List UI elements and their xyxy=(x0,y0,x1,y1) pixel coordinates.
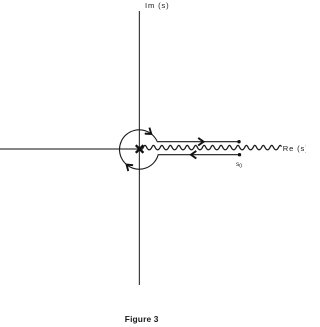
svg-text:Re (s): Re (s) xyxy=(283,144,306,153)
Re axis (left horizontal segment) xyxy=(0,148,139,150)
arrow on circle bottom-left (direction of contour) xyxy=(127,165,134,171)
Im axis (vertical) xyxy=(138,11,140,285)
arrow on bottom slot line (leftward) xyxy=(191,151,196,159)
branch point X at origin xyxy=(136,145,144,153)
endpoint dot top xyxy=(237,140,240,143)
svg-text:Im (s): Im (s) xyxy=(145,1,170,10)
keyhole contour: slot lines + circle arc around origin xyxy=(120,130,240,169)
svg-text:Figure 3: Figure 3 xyxy=(125,314,159,324)
svg-text:s0: s0 xyxy=(236,161,242,170)
arrow on top slot line (rightward) xyxy=(198,138,203,146)
endpoint dot bottom xyxy=(238,153,241,156)
arrow on circle top-right (direction of contour) xyxy=(145,128,152,134)
branch cut (wavy line along positive real axis) xyxy=(140,145,282,149)
